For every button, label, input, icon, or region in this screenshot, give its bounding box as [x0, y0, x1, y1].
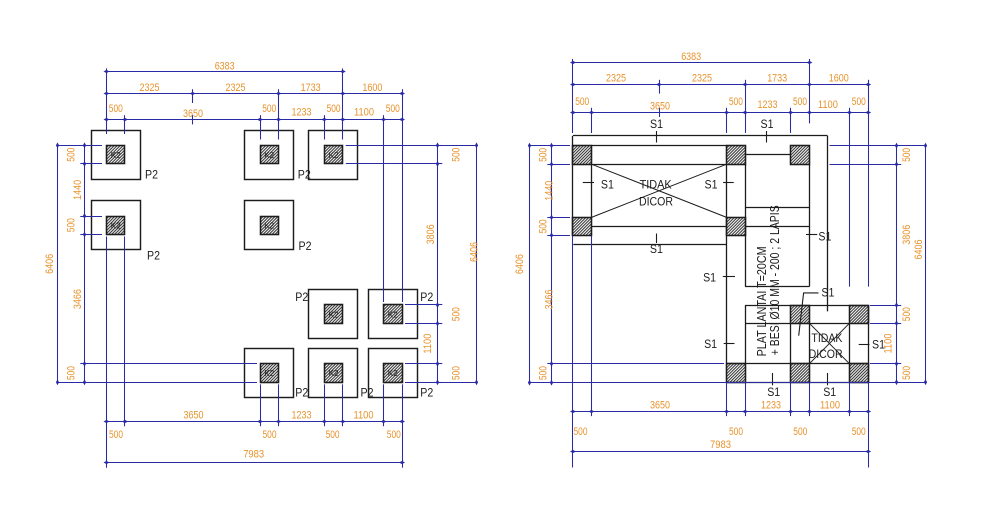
svg-text:K2: K2 [329, 150, 339, 160]
footing P2 col B row 1 outer pad [245, 131, 294, 180]
dim line bottom 3650/1233/1100 + 500s [107, 421, 403, 423]
svg-text:6406: 6406 [44, 254, 56, 274]
svg-text:1100: 1100 [820, 399, 840, 411]
svg-text:6406: 6406 [469, 242, 481, 262]
column hatch row3 colC [791, 306, 810, 324]
svg-text:500: 500 [901, 148, 913, 162]
dim line 6383 top [107, 71, 343, 73]
footing P2 col D row 4 outer pad [369, 349, 418, 398]
column hatch row4 colC [791, 364, 810, 383]
dim line 2325/2325/1733/1600 right drawing [573, 84, 868, 86]
svg-text:+ BESI Ø10 MM - 200 ; 2 LAPIS: + BESI Ø10 MM - 200 ; 2 LAPIS [767, 205, 782, 355]
dim line right 500/3806/500/1100/500 right drawing [896, 146, 898, 383]
svg-text:S1: S1 [767, 385, 780, 399]
svg-text:500: 500 [574, 426, 588, 438]
panel lines B-C y207 [745, 207, 809, 209]
svg-text:500: 500 [729, 96, 743, 108]
svg-text:1100: 1100 [354, 106, 374, 118]
dim line right 6406 right drawing [925, 146, 927, 383]
svg-text:6406: 6406 [514, 254, 526, 274]
svg-text:500: 500 [387, 429, 401, 441]
svg-text:S1: S1 [705, 177, 718, 191]
slab outline top edge [573, 135, 828, 137]
dim line left 6406 right drawing [529, 146, 531, 383]
column K2 col C row 1 hatched [325, 146, 343, 164]
svg-text:K2: K2 [329, 309, 339, 319]
beam col C lines row3-4 [790, 323, 792, 363]
svg-text:500: 500 [852, 96, 866, 108]
footing P2 col C row 3 outer pad [309, 290, 358, 339]
svg-text:K2: K2 [111, 220, 121, 230]
dim line 500/3650/500/1233/500/1100/500 [107, 119, 403, 121]
right drawing: slab plan [514, 51, 927, 468]
footing P2 col C row 1 outer pad [309, 131, 358, 180]
dim line right 6406 [476, 145, 478, 382]
extension lines top right drawing [573, 59, 869, 287]
svg-text:S1: S1 [818, 230, 831, 244]
beam row2 top line [592, 226, 727, 228]
svg-text:6383: 6383 [681, 51, 701, 63]
svg-text:500: 500 [327, 103, 341, 115]
column hatch row1 colC [791, 146, 810, 165]
svg-text:7983: 7983 [243, 449, 264, 461]
svg-text:S1: S1 [823, 385, 836, 399]
svg-text:500: 500 [66, 366, 78, 380]
svg-text:500: 500 [729, 426, 743, 438]
extension lines right side right drawing [830, 146, 926, 383]
X-cross TIDAK DICOR large panel [592, 164, 727, 217]
svg-text:500: 500 [852, 426, 866, 438]
left drawing: foundation footing plan [44, 60, 481, 467]
beam col B left line [726, 164, 728, 364]
svg-text:P2: P2 [295, 388, 308, 400]
svg-text:1733: 1733 [767, 73, 787, 85]
svg-text:S1: S1 [761, 117, 774, 131]
column hatch row2 colB [727, 218, 746, 236]
extension lines right [346, 146, 477, 383]
svg-text:1100: 1100 [818, 99, 838, 111]
svg-text:S1: S1 [821, 286, 834, 300]
svg-text:TIDAK: TIDAK [811, 331, 842, 345]
footing P2 col B row 4 outer pad [245, 349, 294, 398]
svg-text:DICOR: DICOR [809, 347, 843, 361]
svg-text:1600: 1600 [362, 82, 382, 94]
beam S1 row1 B-C centerline [745, 154, 791, 156]
dim line left 6406 [57, 145, 59, 382]
svg-text:K2: K2 [388, 309, 398, 319]
svg-text:P2: P2 [420, 292, 433, 304]
panel lines B-C y287 [745, 286, 809, 288]
svg-text:3466: 3466 [72, 289, 84, 309]
bottom-right section bottom edge [727, 382, 869, 384]
dim line 7983 right drawing [573, 451, 868, 453]
row3 beam bottom line [745, 323, 791, 325]
svg-text:500: 500 [793, 96, 807, 108]
svg-text:1600: 1600 [829, 73, 849, 85]
svg-text:S1: S1 [601, 177, 614, 191]
panel lines B-C y227 [745, 226, 809, 228]
beam col B right line [745, 164, 747, 286]
column K2 col C row 4 hatched [325, 364, 343, 383]
footing P2 col D row 3 outer pad [369, 290, 418, 339]
beam col C right line [809, 164, 811, 286]
svg-text:3806: 3806 [425, 224, 437, 244]
svg-text:500: 500 [901, 307, 913, 321]
svg-text:500: 500 [450, 307, 462, 321]
dim line 6383 right drawing [573, 62, 809, 64]
column hatch row2 colA [573, 218, 592, 236]
svg-text:6406: 6406 [913, 240, 925, 260]
beam S1 row1 A-B top line [592, 145, 727, 147]
svg-text:500: 500 [263, 429, 277, 441]
dim line 2325/2325/1733/1600 [107, 93, 403, 95]
extension lines top [107, 68, 403, 302]
slab outline right edge [827, 136, 829, 312]
column K2 col A row 2 hatched [107, 217, 125, 235]
svg-text:P2: P2 [295, 292, 308, 304]
column K2 col D row 3 hatched [384, 305, 403, 324]
column hatch row1 colB [727, 146, 746, 165]
svg-text:500: 500 [538, 148, 550, 162]
beam row2 bottom line [573, 244, 726, 246]
svg-text:3650: 3650 [184, 409, 204, 421]
svg-text:6383: 6383 [215, 60, 235, 72]
svg-text:P2: P2 [420, 388, 433, 400]
svg-text:K2: K2 [264, 220, 274, 230]
svg-text:7983: 7983 [710, 439, 731, 451]
svg-text:2325: 2325 [140, 82, 160, 94]
beam col D left line row3-4 [849, 323, 851, 363]
column K2 col A row 1 hatched [107, 146, 125, 164]
svg-text:2325: 2325 [692, 73, 712, 85]
svg-text:500: 500 [575, 96, 589, 108]
dim line left 500/1440/500/3466/500 right drawing [551, 146, 553, 383]
svg-text:500: 500 [901, 366, 913, 380]
row4 beam top line [727, 363, 869, 365]
extension lines left right drawing [530, 146, 926, 383]
svg-text:500: 500 [450, 148, 462, 162]
svg-text:500: 500 [109, 103, 123, 115]
svg-text:500: 500 [66, 148, 78, 162]
svg-text:2325: 2325 [226, 82, 246, 94]
svg-text:1440: 1440 [544, 181, 556, 201]
column hatch row4 colD [850, 364, 869, 383]
column K2 col D row 4 hatched [384, 364, 403, 383]
svg-text:500: 500 [66, 218, 78, 232]
svg-text:K2: K2 [264, 368, 274, 378]
extension lines bottom [107, 237, 403, 468]
svg-text:S1: S1 [650, 242, 663, 256]
svg-text:K2: K2 [264, 150, 274, 160]
svg-text:500: 500 [109, 429, 123, 441]
svg-text:500: 500 [538, 366, 550, 380]
slab outline left edge [572, 136, 574, 236]
bottom-right section right edge [868, 305, 870, 382]
svg-text:K2: K2 [111, 150, 121, 160]
svg-text:3650: 3650 [650, 399, 670, 411]
svg-text:P2: P2 [298, 170, 311, 182]
dim line bottom right drawing [573, 411, 868, 413]
svg-text:500: 500 [538, 219, 550, 233]
footing P2 col B row 2 outer pad [245, 201, 294, 250]
svg-text:1233: 1233 [761, 399, 781, 411]
dim line left 500/1440/500/3466/500 [84, 145, 86, 382]
column K2 col B row 2 hatched [261, 217, 279, 235]
svg-text:1100: 1100 [883, 334, 895, 354]
X-cross TIDAK DICOR small panel [809, 323, 849, 363]
footing P2 col A row 2 outer pad [92, 201, 141, 250]
svg-text:1233: 1233 [758, 99, 778, 111]
svg-text:P2: P2 [145, 170, 158, 182]
column K2 col B row 4 hatched [261, 364, 279, 383]
svg-text:P2: P2 [147, 251, 160, 263]
svg-text:3806: 3806 [901, 225, 913, 245]
beam S1 row1 A-B bottom line [592, 164, 727, 166]
column K2 col B row 1 hatched [261, 146, 279, 164]
svg-text:1233: 1233 [292, 409, 312, 421]
svg-text:P2: P2 [299, 241, 312, 253]
column hatch row4 colB [727, 364, 746, 383]
svg-text:1440: 1440 [72, 180, 84, 200]
svg-text:1100: 1100 [354, 409, 374, 421]
svg-text:500: 500 [450, 366, 462, 380]
column hatch row3 colD [850, 306, 869, 324]
svg-text:1733: 1733 [301, 82, 321, 94]
svg-text:S1: S1 [650, 117, 663, 131]
dim line right 500/3806/500/1100/500 [437, 145, 439, 382]
svg-text:K2: K2 [388, 368, 398, 378]
svg-text:P2: P2 [361, 388, 374, 400]
dim line 500/3650/500/1233/500/1100/500 right drawing [573, 112, 868, 114]
svg-text:DICOR: DICOR [639, 195, 673, 209]
svg-text:K2: K2 [329, 368, 339, 378]
svg-text:500: 500 [262, 103, 276, 115]
dim line 7983 [107, 462, 403, 464]
svg-text:2325: 2325 [606, 73, 626, 85]
column K2 col C row 3 hatched [325, 305, 343, 324]
footing P2 col C row 4 outer pad [309, 349, 358, 398]
svg-text:500: 500 [386, 103, 400, 115]
svg-text:3466: 3466 [544, 290, 556, 310]
extension lines left [58, 146, 257, 383]
column S1 hatch row1 colA [573, 146, 592, 165]
extension lines bottom right drawing [573, 236, 869, 468]
bottom-right section top edge [745, 305, 868, 307]
svg-text:TIDAK: TIDAK [640, 177, 672, 191]
svg-text:500: 500 [793, 426, 807, 438]
svg-text:500: 500 [326, 429, 340, 441]
beam col A left line [591, 164, 593, 217]
svg-text:1100: 1100 [422, 334, 434, 354]
svg-text:S1: S1 [704, 337, 717, 351]
footing P2 col A row 1 outer pad [92, 131, 141, 180]
svg-text:S1: S1 [703, 271, 716, 285]
svg-text:1233: 1233 [292, 106, 312, 118]
